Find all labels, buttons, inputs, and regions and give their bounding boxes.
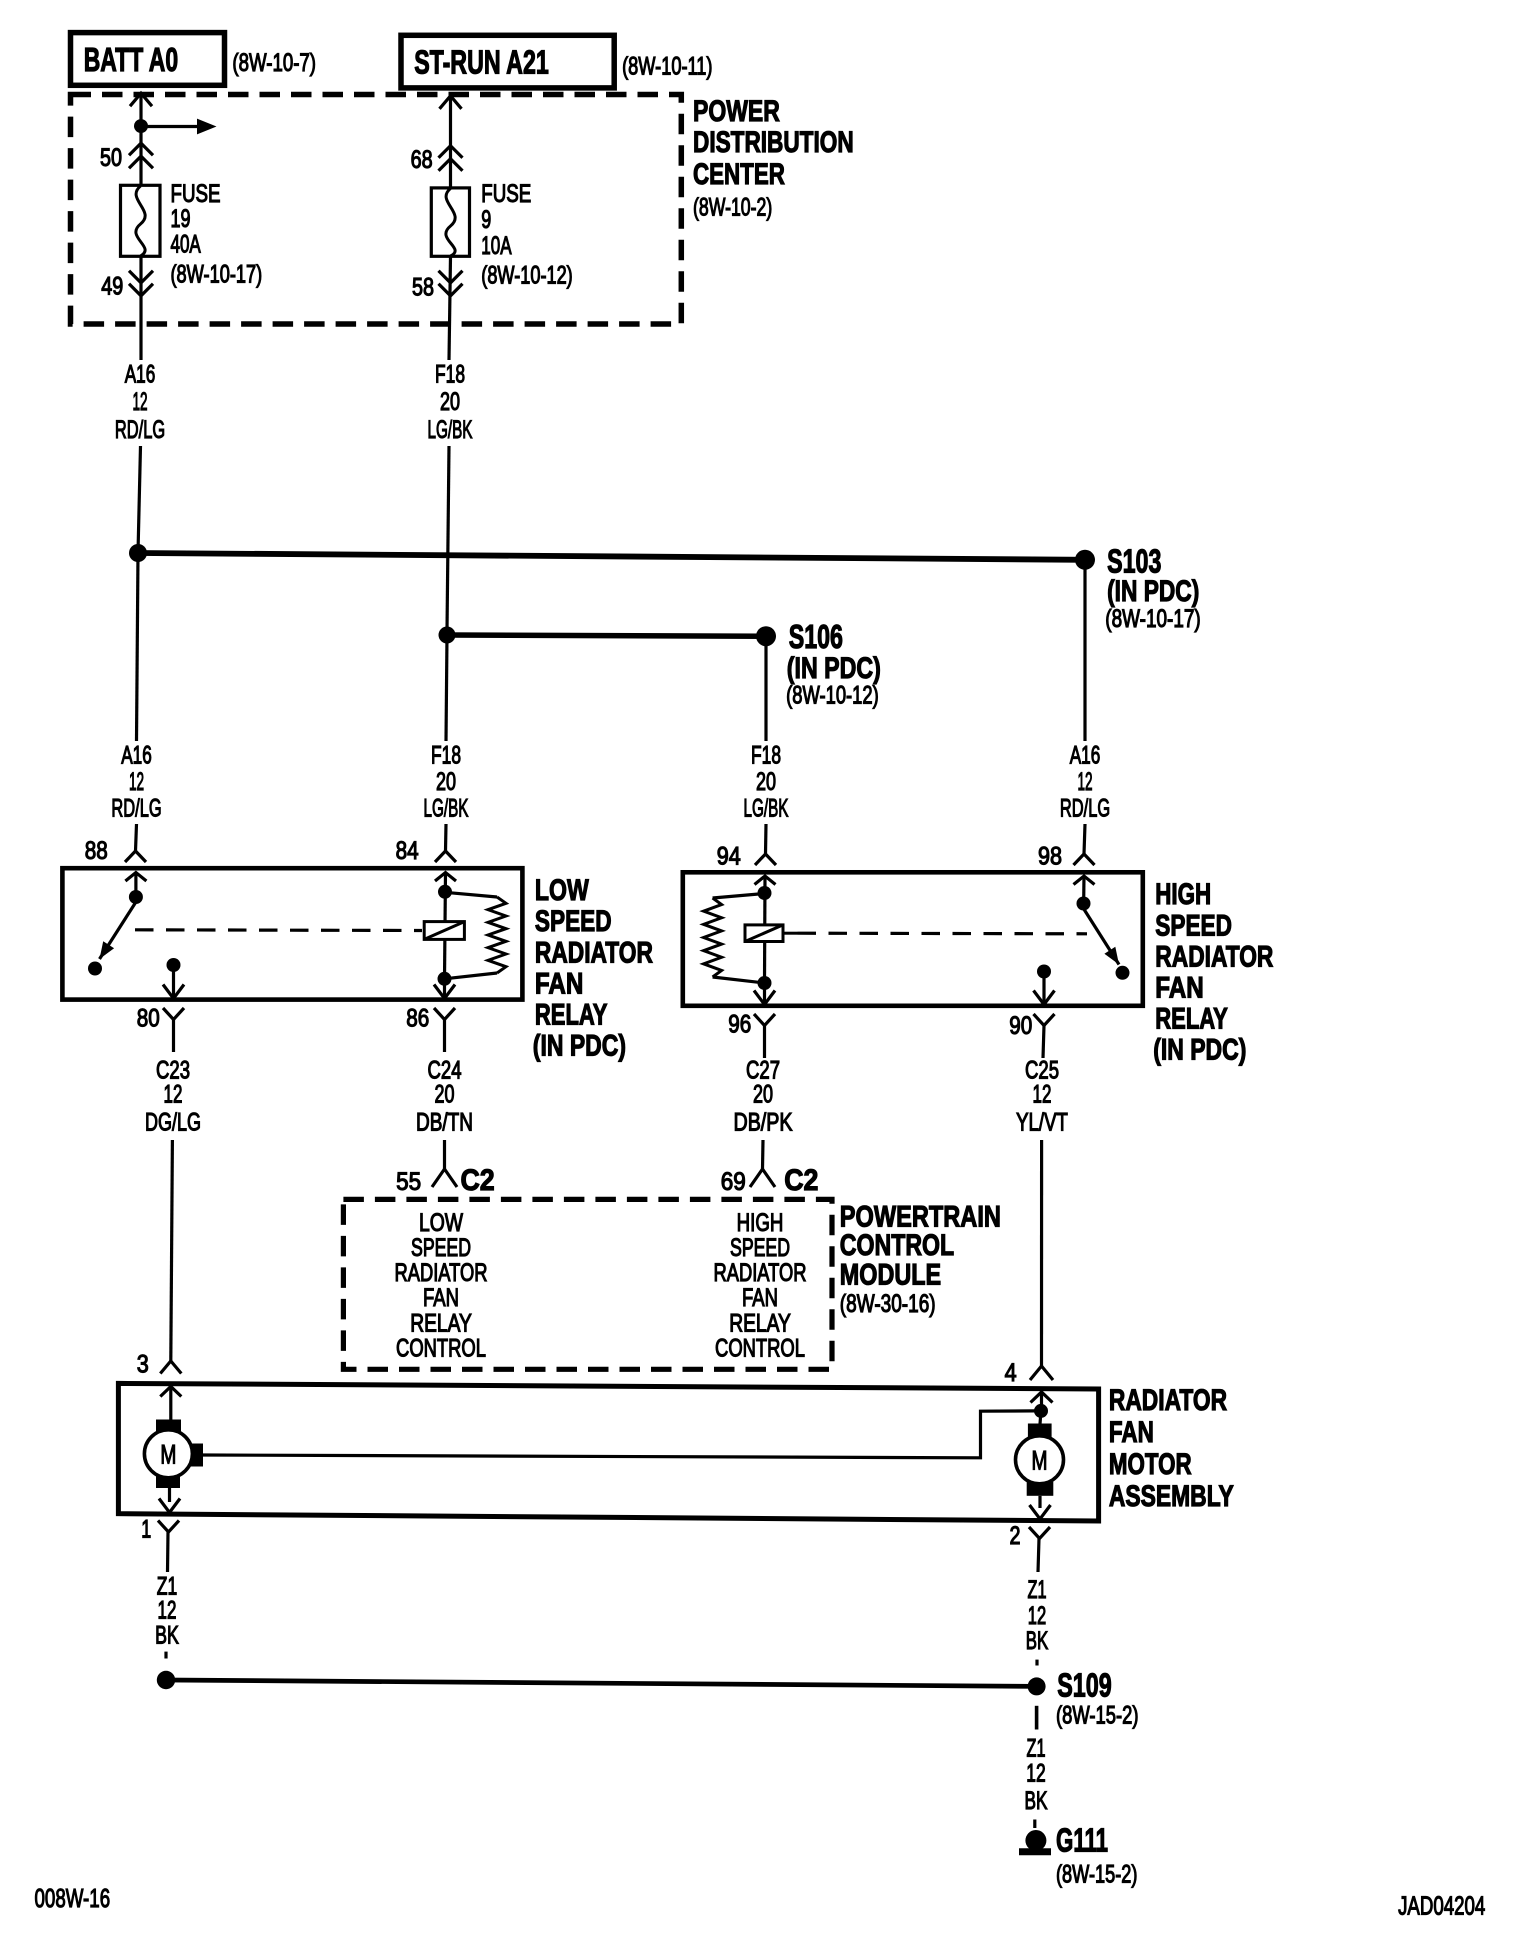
label LOW SPEED RADIATOR FAN RELAY CONTROL	[394, 1209, 487, 1363]
wire label C27 20 DB/PK	[734, 1056, 793, 1136]
wire	[445, 873, 446, 979]
wire	[139, 96, 142, 186]
svg-text:RD/LG: RD/LG	[111, 795, 161, 822]
svg-text:20: 20	[436, 767, 456, 796]
wire label C25 12 YL/VT	[1016, 1056, 1068, 1136]
connector pin 90	[1009, 1011, 1054, 1058]
svg-text:F18: F18	[431, 741, 461, 769]
svg-text:12: 12	[1026, 1758, 1045, 1787]
contact dot	[1116, 966, 1130, 980]
pin 3 entry arrow	[160, 1387, 181, 1422]
svg-text:DB/TN: DB/TN	[416, 1108, 473, 1136]
label (8W-10-11)	[622, 52, 712, 81]
pin 94 entry arrow	[755, 876, 776, 885]
svg-text:68: 68	[411, 146, 433, 174]
svg-text:BK: BK	[1026, 1627, 1048, 1655]
svg-text:(8W-10-12): (8W-10-12)	[481, 261, 572, 290]
fuse 19 40A	[121, 185, 161, 256]
wire	[137, 553, 139, 741]
wire	[449, 98, 452, 188]
connector pin 2	[1010, 1522, 1050, 1572]
svg-text:F18: F18	[751, 741, 781, 769]
wire	[1033, 1820, 1036, 1829]
connector pin 80	[137, 1004, 184, 1052]
svg-text:DG/LG: DG/LG	[145, 1107, 201, 1136]
label HIGH SPEED RADIATOR FAN RELAY CONTROL	[713, 1208, 806, 1362]
motor M1	[144, 1420, 203, 1489]
svg-text:BK: BK	[1025, 1787, 1049, 1815]
wire	[447, 446, 449, 631]
svg-text:90: 90	[1009, 1011, 1032, 1039]
svg-text:58: 58	[412, 273, 434, 301]
svg-text:3: 3	[137, 1350, 149, 1378]
wire	[1035, 1706, 1039, 1730]
label 008W-16	[35, 1883, 111, 1913]
svg-text:CONTROL: CONTROL	[715, 1334, 805, 1362]
label FUSE 9 10A (8W-10-12)	[481, 179, 572, 289]
svg-text:CONTROL: CONTROL	[396, 1334, 486, 1362]
svg-text:20: 20	[440, 387, 460, 416]
relay coil	[745, 925, 783, 942]
svg-text:F18: F18	[435, 360, 465, 388]
svg-text:12: 12	[129, 769, 144, 796]
wire	[164, 1652, 167, 1659]
junction dot	[1077, 897, 1091, 911]
svg-text:19: 19	[171, 204, 191, 233]
arrow to BATT A0	[130, 93, 152, 106]
wire	[764, 824, 768, 854]
junction dot	[157, 1671, 175, 1689]
svg-text:80: 80	[137, 1004, 160, 1032]
powertrain control module box	[343, 1199, 832, 1369]
connector pin 49	[101, 271, 153, 300]
connector pin 84	[396, 836, 456, 864]
wire	[449, 256, 451, 360]
svg-text:CONTROL: CONTROL	[840, 1228, 954, 1262]
arrow feed continues right	[141, 119, 217, 135]
svg-text:A16: A16	[125, 360, 156, 388]
connector pin 98	[1038, 842, 1094, 870]
label RADIATOR FAN MOTOR ASSEMBLY	[1109, 1383, 1234, 1513]
wire	[446, 635, 447, 741]
svg-text:Z1: Z1	[1028, 1577, 1047, 1604]
pin 86 exit arrow	[434, 985, 455, 999]
wire label F18 20 LG/BK	[428, 360, 473, 444]
svg-text:49: 49	[101, 272, 123, 300]
wire label F18 20 LG/BK	[744, 741, 789, 822]
label JAD04204	[1398, 1892, 1485, 1921]
wire label A16 12 RD/LG	[115, 360, 165, 444]
low speed radiator fan relay box	[62, 868, 522, 999]
wire	[764, 636, 767, 741]
svg-text:(8W-10-2): (8W-10-2)	[693, 192, 772, 221]
wire label A16 12 RD/LG	[111, 741, 161, 822]
svg-text:(8W-10-12): (8W-10-12)	[786, 681, 879, 709]
svg-text:FAN: FAN	[742, 1283, 778, 1311]
svg-text:JAD04204: JAD04204	[1398, 1892, 1485, 1921]
svg-text:RD/LG: RD/LG	[115, 417, 165, 444]
svg-text:MODULE: MODULE	[840, 1258, 941, 1291]
relay switch arm	[100, 902, 136, 959]
pin 4 entry arrow	[1031, 1392, 1053, 1409]
svg-text:POWER: POWER	[693, 94, 780, 128]
label POWER DISTRIBUTION CENTER	[693, 94, 854, 221]
svg-text:4: 4	[1005, 1359, 1017, 1387]
wire	[171, 1140, 173, 1361]
splice S106	[756, 619, 881, 709]
contact dot	[1037, 965, 1051, 979]
svg-text:M: M	[1032, 1445, 1048, 1475]
svg-text:MOTOR: MOTOR	[1109, 1447, 1192, 1481]
connector pin 50	[100, 143, 153, 171]
connector pin 86	[406, 1004, 455, 1052]
label FUSE 19 40A (8W-10-17)	[171, 179, 263, 288]
wire	[172, 965, 175, 997]
label (8W-10-7)	[232, 48, 316, 76]
label POWERTRAIN CONTROL MODULE (8W-30-16)	[840, 1200, 1001, 1318]
svg-text:CENTER: CENTER	[693, 157, 785, 191]
wire splice bus S103	[138, 553, 1085, 560]
svg-text:40A: 40A	[171, 230, 202, 258]
junction dot	[758, 976, 772, 990]
pin 98 entry arrow	[1074, 876, 1095, 900]
label LOW SPEED RADIATOR FAN RELAY (IN PDC)	[533, 873, 653, 1062]
relay actuation dashed line	[135, 928, 422, 932]
svg-text:DISTRIBUTION: DISTRIBUTION	[693, 125, 854, 159]
svg-text:(8W-15-2): (8W-15-2)	[1056, 1701, 1139, 1729]
connector pin 96	[728, 1010, 775, 1058]
wire	[763, 876, 767, 983]
svg-text:(IN PDC): (IN PDC)	[1107, 574, 1199, 608]
wire	[443, 1140, 446, 1169]
svg-text:12: 12	[1077, 769, 1092, 796]
connector pin 4	[1005, 1359, 1053, 1387]
wire	[763, 983, 766, 1003]
svg-text:YL/VT: YL/VT	[1016, 1108, 1068, 1136]
svg-text:(8W-10-7): (8W-10-7)	[232, 48, 316, 76]
svg-text:FUSE: FUSE	[481, 179, 531, 207]
relay switch arm	[1084, 909, 1120, 965]
splice S103	[1075, 544, 1201, 633]
svg-text:ST-RUN A21: ST-RUN A21	[414, 44, 549, 81]
svg-text:BATT A0: BATT A0	[84, 42, 178, 79]
svg-text:(8W-10-17): (8W-10-17)	[1105, 604, 1200, 632]
svg-text:008W-16: 008W-16	[35, 1883, 111, 1913]
svg-text:96: 96	[728, 1010, 751, 1038]
radiator fan motor assembly box	[118, 1383, 1098, 1521]
svg-text:69: 69	[721, 1168, 746, 1196]
ground G111	[1019, 1822, 1137, 1888]
wire	[1083, 560, 1086, 741]
wire	[1038, 1496, 1041, 1508]
svg-text:(8W-15-2): (8W-15-2)	[1056, 1860, 1137, 1889]
wire	[139, 256, 142, 360]
svg-text:BK: BK	[155, 1621, 179, 1650]
svg-text:55: 55	[396, 1168, 421, 1196]
svg-text:SPEED: SPEED	[535, 904, 612, 938]
svg-text:84: 84	[396, 836, 419, 864]
junction dot	[134, 119, 148, 133]
connector pin 58	[412, 271, 462, 301]
svg-text:G111: G111	[1056, 1822, 1108, 1858]
junction dot	[129, 544, 147, 562]
node BATT A0	[71, 33, 225, 86]
power distribution center box	[71, 95, 682, 325]
high speed radiator fan relay box	[683, 872, 1143, 1006]
svg-text:FAN: FAN	[423, 1283, 459, 1311]
wire	[136, 824, 137, 851]
svg-text:HIGH: HIGH	[1155, 877, 1211, 911]
junction dot	[1034, 1404, 1048, 1418]
svg-text:98: 98	[1038, 842, 1062, 870]
svg-text:LG/BK: LG/BK	[744, 795, 789, 823]
node ST-RUN A21	[401, 35, 614, 88]
relay actuation dashed line	[798, 932, 1088, 936]
svg-text:86: 86	[406, 1004, 429, 1032]
svg-text:94: 94	[717, 842, 741, 870]
connector pin 55 C2	[396, 1164, 495, 1198]
wire label Z1 12 BK	[1025, 1735, 1049, 1814]
wire	[1042, 972, 1045, 1004]
svg-text:LOW: LOW	[535, 873, 590, 907]
wire splice bus S106	[447, 635, 766, 636]
svg-text:20: 20	[753, 1080, 773, 1109]
svg-text:FAN: FAN	[535, 966, 583, 1000]
svg-text:(IN PDC): (IN PDC)	[787, 651, 881, 685]
svg-text:ASSEMBLY: ASSEMBLY	[1109, 1479, 1234, 1513]
wire label C24 20 DB/TN	[416, 1056, 473, 1136]
pin 1 exit arrow	[159, 1499, 180, 1513]
wire label Z1 12 BK	[155, 1572, 179, 1650]
wire motor link	[203, 1411, 1035, 1458]
svg-text:C2: C2	[784, 1164, 818, 1198]
pin 88 entry arrow	[125, 873, 146, 896]
svg-text:DB/PK: DB/PK	[734, 1108, 793, 1136]
connector pin 1	[141, 1515, 179, 1572]
wire	[443, 979, 446, 997]
junction dot	[758, 886, 772, 900]
wire	[1084, 824, 1085, 854]
wire label Z1 12 BK	[1026, 1577, 1048, 1655]
contact dot	[167, 958, 181, 972]
pin 80 exit arrow	[163, 985, 184, 999]
svg-text:FAN: FAN	[1155, 970, 1203, 1004]
fuse 9 10A	[431, 188, 469, 256]
pin 2 exit arrow	[1030, 1505, 1051, 1519]
wire	[761, 1140, 765, 1169]
wire	[138, 446, 141, 553]
junction dot	[439, 627, 456, 644]
svg-text:LG/BK: LG/BK	[424, 795, 469, 823]
svg-text:10A: 10A	[481, 232, 512, 260]
svg-text:12: 12	[164, 1080, 183, 1108]
wire	[168, 1488, 171, 1502]
svg-text:RD/LG: RD/LG	[1060, 795, 1110, 822]
junction dot	[438, 885, 452, 899]
svg-text:(8W-30-16): (8W-30-16)	[840, 1289, 936, 1317]
svg-text:LG/BK: LG/BK	[428, 416, 473, 444]
svg-text:A16: A16	[121, 741, 152, 769]
svg-text:RELAY: RELAY	[535, 997, 608, 1031]
svg-text:FAN: FAN	[1109, 1415, 1154, 1449]
connector pin 94	[717, 842, 776, 870]
svg-text:12: 12	[1033, 1080, 1052, 1108]
wire splice bus S109	[166, 1680, 1037, 1686]
svg-text:M: M	[160, 1439, 176, 1469]
motor M2	[1016, 1411, 1064, 1496]
svg-text:RADIATOR: RADIATOR	[1109, 1383, 1227, 1417]
svg-text:12: 12	[132, 389, 147, 416]
svg-text:A16: A16	[1070, 741, 1101, 769]
contact dot	[88, 962, 102, 976]
label HIGH SPEED RADIATOR FAN RELAY (IN PDC)	[1153, 877, 1273, 1066]
svg-text:(8W-10-17): (8W-10-17)	[171, 260, 263, 289]
svg-text:20: 20	[434, 1080, 454, 1109]
svg-text:1: 1	[141, 1515, 151, 1544]
resistor (relay)	[445, 892, 507, 979]
wire	[444, 824, 448, 851]
svg-text:RADIATOR: RADIATOR	[535, 935, 653, 969]
arrow to ST-RUN A21	[440, 96, 462, 109]
svg-text:50: 50	[100, 144, 122, 172]
svg-text:88: 88	[85, 836, 108, 864]
wire label A16 12 RD/LG	[1060, 741, 1110, 822]
wire	[1040, 1140, 1043, 1366]
svg-text:SPEED: SPEED	[1155, 908, 1232, 942]
svg-text:9: 9	[481, 205, 491, 234]
svg-text:2: 2	[1010, 1522, 1021, 1550]
pin 84 entry arrow	[435, 873, 456, 882]
connector pin 88	[85, 836, 146, 864]
svg-text:RADIATOR: RADIATOR	[1155, 939, 1273, 973]
pin 90 exit arrow	[1034, 991, 1055, 1005]
wire label C23 12 DG/LG	[145, 1056, 201, 1136]
svg-text:(8W-10-11): (8W-10-11)	[622, 52, 712, 81]
svg-text:20: 20	[756, 767, 776, 796]
splice S109	[1028, 1668, 1139, 1730]
connector pin 69 C2	[721, 1164, 819, 1198]
svg-text:C2: C2	[461, 1164, 495, 1198]
relay coil	[424, 922, 464, 940]
wire	[1035, 1660, 1038, 1666]
svg-text:(IN PDC): (IN PDC)	[1153, 1033, 1246, 1067]
resistor (relay)	[704, 894, 765, 984]
svg-text:S109: S109	[1057, 1668, 1112, 1705]
wire label F18 20 LG/BK	[424, 741, 469, 822]
svg-text:RELAY: RELAY	[1155, 1001, 1228, 1035]
junction dot	[438, 972, 452, 986]
wire	[783, 932, 798, 935]
connector pin 3	[137, 1350, 182, 1378]
junction dot	[129, 890, 143, 904]
svg-text:(IN PDC): (IN PDC)	[533, 1029, 626, 1063]
connector pin 68	[411, 146, 463, 174]
pin 96 exit arrow	[754, 991, 775, 1005]
